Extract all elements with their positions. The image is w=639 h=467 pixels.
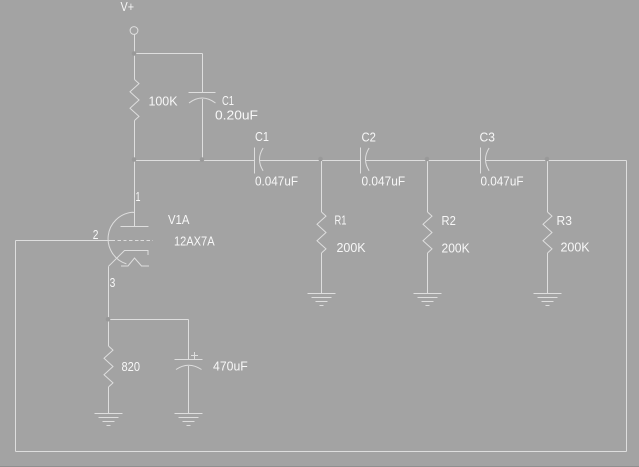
capacitor 470uF curved plate [176, 365, 202, 369]
ground 470uF [175, 414, 203, 426]
svg-text:C3: C3 [480, 131, 495, 145]
junction dot R3 node [545, 157, 550, 162]
wire plate rail to coupling cap C1 [135, 160, 255, 162]
svg-text:200K: 200K [337, 241, 367, 255]
svg-text:0.20uF: 0.20uF [215, 109, 258, 123]
svg-text:470uF: 470uF [213, 360, 248, 374]
svg-text:0.047uF: 0.047uF [481, 175, 524, 189]
wire grid pin 2 [16, 240, 116, 242]
ground 820 [95, 414, 123, 426]
capacitor C2 coupling left plate [360, 148, 362, 174]
tube heater filament [121, 258, 149, 266]
junction dot C1 0.20uF bottom node [200, 157, 205, 162]
wire 470uF top lead [188, 320, 190, 360]
wire V+ terminal to node [134, 35, 136, 54]
wire R3 branch down [547, 161, 549, 213]
wire C1 0.20uF bottom lead [202, 99, 204, 161]
wire cathode pin 3 down [108, 267, 110, 320]
svg-text:C1: C1 [255, 130, 269, 144]
svg-text:V1A: V1A [168, 213, 190, 227]
wire R1 branch down [321, 161, 323, 213]
wire R3 bottom to ground [547, 253, 549, 294]
capacitor 470uF top plate [175, 359, 203, 361]
tube cathode [109, 251, 149, 267]
wire left edge feedback up [15, 241, 17, 452]
svg-text:100K: 100K [149, 95, 179, 109]
junction dot R1 node [318, 157, 323, 162]
V+ terminal circle [130, 27, 138, 35]
ground R2 [414, 294, 442, 306]
ground R1 [308, 294, 336, 306]
svg-text:3: 3 [110, 276, 116, 290]
wire R1 bottom to ground [321, 253, 323, 294]
wire cathode node to 820 [108, 320, 110, 347]
svg-text:C1: C1 [222, 94, 234, 108]
capacitor C1 coupling curved plate [260, 148, 264, 171]
svg-text:V+: V+ [121, 0, 135, 14]
tube grid dashed line [118, 240, 154, 242]
junction dot V+ node [132, 51, 137, 56]
tube plate bar [121, 226, 149, 228]
tube V1A envelope arc [108, 212, 134, 264]
wire 470uF bottom lead [188, 366, 190, 414]
resistor R1 zigzag [317, 212, 326, 253]
capacitor C2 coupling curved plate [366, 148, 370, 171]
svg-text:R3: R3 [557, 214, 572, 228]
wire cathode node to 470uF [109, 319, 189, 321]
470uF plus sign vertical [194, 352, 196, 359]
wire V+ node down to R 100K [134, 54, 136, 80]
svg-text:200K: 200K [561, 241, 591, 255]
wire C1 0.20uF top lead [202, 54, 204, 93]
svg-text:1: 1 [136, 190, 141, 204]
svg-text:R2: R2 [442, 214, 456, 228]
resistor 100K zigzag [130, 80, 139, 121]
junction dot cathode node [106, 317, 111, 322]
svg-text:820: 820 [122, 360, 141, 374]
capacitor C1 0.20uF curved plate [189, 98, 216, 103]
resistor 820 zigzag [104, 346, 113, 387]
svg-text:2: 2 [93, 228, 99, 242]
svg-text:200K: 200K [442, 242, 471, 256]
wire R2 branch down [427, 161, 429, 213]
wire V+ node to C1 top [135, 53, 203, 55]
capacitor C1 0.20uF top plate [189, 92, 216, 94]
junction dot R2 node [425, 157, 430, 162]
capacitor C3 coupling curved plate [486, 148, 490, 171]
wire bottom feedback [16, 451, 627, 453]
resistor R2 zigzag [423, 212, 432, 253]
junction dot plate node [132, 157, 137, 162]
470uF plus sign horizontal [191, 355, 198, 357]
wire right edge feedback down [626, 161, 628, 452]
svg-text:C2: C2 [362, 131, 376, 145]
wire C1 arc to C2 plate [260, 160, 361, 162]
wire 100K bottom to plate rail [134, 121, 136, 161]
capacitor C1 coupling left plate [254, 148, 256, 174]
wire 820 bottom to ground [108, 387, 110, 414]
ground R3 [534, 294, 562, 306]
svg-text:R1: R1 [335, 214, 347, 228]
wire C2 arc to C3 plate [366, 160, 481, 162]
wire C3 arc to right edge [486, 160, 627, 162]
svg-text:0.047uF: 0.047uF [362, 175, 406, 189]
wire R2 bottom to ground [427, 253, 429, 294]
wire node plate down to tube pin 1 [134, 161, 136, 227]
capacitor C3 coupling left plate [480, 148, 482, 174]
svg-text:12AX7A: 12AX7A [174, 235, 215, 249]
resistor R3 zigzag [543, 212, 552, 253]
svg-text:0.047uF: 0.047uF [255, 175, 298, 189]
bottom window edge [0, 466, 639, 467]
